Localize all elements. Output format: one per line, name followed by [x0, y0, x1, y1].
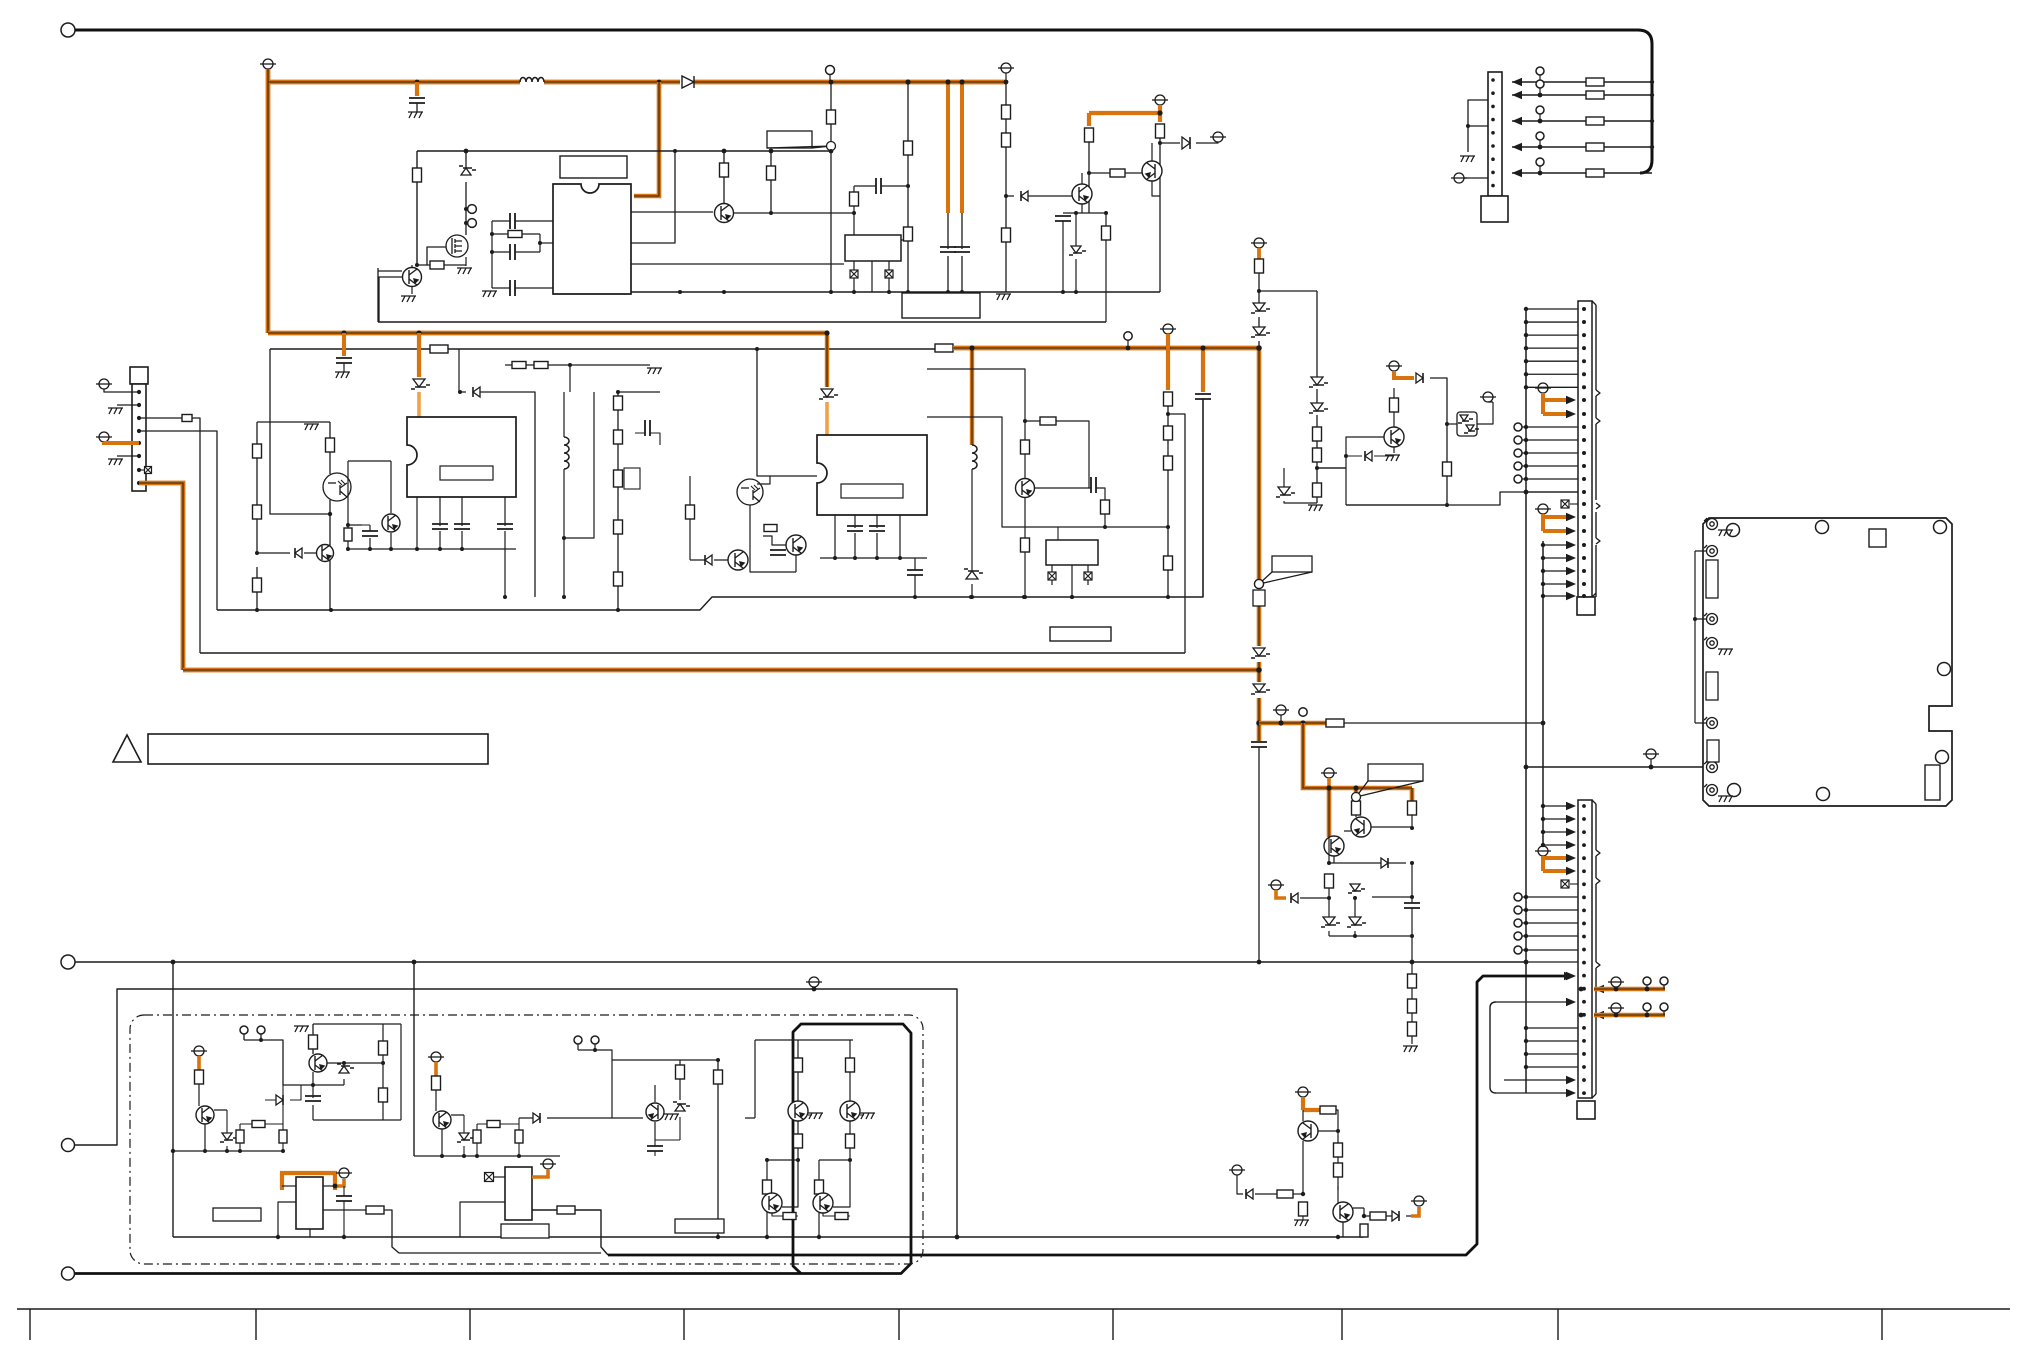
junction: [1582, 594, 1586, 598]
junction: [1336, 1129, 1340, 1133]
mounting hole: [1938, 663, 1951, 676]
capacitor (X): [885, 270, 893, 278]
capacitor: [1055, 216, 1071, 221]
wire to shield: [1526, 766, 1703, 768]
resistor: [487, 1121, 500, 1128]
arrow: [1566, 1089, 1576, 1097]
wire: [770, 151, 772, 213]
junction: [562, 595, 566, 599]
transistor Q16: [433, 1111, 451, 1129]
power terminal: [96, 379, 112, 389]
wire: [971, 469, 973, 597]
stem: [1615, 1013, 1617, 1015]
junction: [765, 1235, 769, 1239]
CN2 row wire: [1526, 386, 1578, 388]
junction: [616, 608, 620, 612]
ground: [664, 1114, 679, 1120]
wire: [578, 1044, 612, 1060]
junction: [887, 290, 891, 294]
resistor: [850, 192, 859, 206]
flag target circle: [1255, 580, 1264, 589]
power terminal: [1152, 95, 1168, 105]
junction: [817, 1235, 821, 1239]
wire: [1411, 962, 1413, 1044]
wire: [265, 1085, 301, 1100]
capacitor: [454, 524, 470, 529]
wire: [655, 1117, 680, 1140]
diode: [1021, 191, 1028, 201]
wire: [1212, 142, 1218, 143]
wire: [617, 392, 619, 610]
IC U3 label: [440, 466, 493, 480]
junction: [1257, 960, 1262, 965]
wire: [532, 1210, 608, 1255]
wire: [808, 1114, 864, 1116]
label box: [675, 1219, 724, 1233]
diode: [1365, 451, 1372, 461]
capacitor: [645, 420, 650, 436]
arrow: [1566, 972, 1576, 980]
junction: [412, 960, 417, 965]
capacitor: [847, 526, 863, 531]
power terminal: [806, 977, 822, 987]
ground: [335, 372, 350, 378]
wire: [463, 1115, 465, 1156]
open terminal: [1514, 449, 1522, 457]
wire: [1346, 455, 1394, 457]
orange bus: [953, 346, 1259, 351]
junction: [1582, 909, 1586, 913]
open terminal: [1536, 106, 1544, 114]
arrow: [1566, 867, 1576, 875]
transistor Q17: [646, 1103, 664, 1121]
orange CN3 side feed: [1594, 1013, 1665, 1017]
junction: [1524, 333, 1528, 337]
junction: [459, 1236, 461, 1238]
resistor: [1277, 1190, 1293, 1198]
arrow: [1566, 592, 1576, 600]
wire: [1062, 221, 1064, 292]
wire: [717, 1060, 719, 1237]
mounting hole: [1727, 524, 1740, 537]
label box: [1050, 627, 1111, 641]
diode: [1182, 137, 1190, 149]
open terminal: [240, 1026, 248, 1034]
wire: [927, 417, 1168, 527]
transistor Q21: [813, 1193, 833, 1213]
orange stub: [1303, 1097, 1320, 1110]
junction: [1074, 211, 1078, 215]
junction: [905, 79, 910, 84]
junction: [1158, 141, 1162, 145]
wire: [139, 431, 217, 610]
wire: [1057, 527, 1059, 540]
capacitor: [869, 526, 885, 531]
junction: [755, 347, 759, 351]
junction: [1541, 556, 1545, 560]
wire: [492, 220, 553, 222]
junction: [440, 1154, 444, 1158]
zener: [1253, 303, 1265, 311]
wire: [1329, 888, 1355, 898]
junction: [1410, 861, 1414, 865]
junction: [1445, 503, 1449, 507]
junction: [1524, 359, 1528, 363]
open terminal: [1514, 906, 1522, 914]
transistor Q18: [788, 1101, 808, 1121]
wire: [505, 364, 650, 366]
wire: [618, 391, 660, 393]
callout flag: [767, 131, 836, 151]
junction: [1582, 556, 1586, 560]
wire: [348, 524, 370, 526]
junction: [171, 1149, 175, 1153]
wire: [1081, 173, 1083, 213]
junction: [1157, 110, 1162, 115]
junction: [1582, 882, 1586, 886]
open terminal: [468, 205, 477, 214]
junction: [853, 556, 857, 560]
junction: [593, 1048, 597, 1052]
zener: [1311, 403, 1323, 411]
junction: [1582, 974, 1586, 978]
junction: [906, 184, 910, 188]
inductor: [972, 445, 977, 469]
diode: [705, 555, 712, 565]
orange bus (heater): [139, 483, 183, 670]
stem: [1646, 1011, 1648, 1015]
wire: [1293, 1193, 1303, 1195]
junction: [1582, 948, 1586, 952]
transistor Q4: [1142, 161, 1162, 181]
junction: [1022, 595, 1026, 599]
junction: [1524, 320, 1528, 324]
capacitor: [1404, 903, 1420, 908]
resistor: [1002, 228, 1011, 242]
wire: [1695, 551, 1706, 723]
resistor: [904, 141, 913, 155]
wire: [239, 1124, 241, 1151]
CN2 bracket: [1595, 424, 1597, 500]
junction: [503, 595, 507, 599]
capacitor: [510, 280, 515, 296]
ground: [1718, 796, 1733, 802]
resistor: [432, 1076, 441, 1090]
power terminal (B+ in): [260, 59, 276, 69]
resistor: [1002, 133, 1011, 147]
junction: [137, 454, 141, 458]
CN2 bracket chevron: [1596, 538, 1600, 544]
open terminal: [574, 1036, 582, 1044]
ground: [408, 112, 423, 118]
open terminal: [1536, 158, 1544, 166]
junction: [1582, 1091, 1586, 1095]
open terminal: [1536, 67, 1544, 75]
open terminal: [591, 1036, 599, 1044]
wire: [1035, 488, 1105, 500]
label box: [213, 1208, 261, 1221]
junction: [829, 149, 834, 154]
junction: [1524, 1039, 1528, 1043]
zener: [1278, 487, 1290, 495]
junction: [1582, 987, 1586, 991]
open terminal: [1660, 1003, 1668, 1011]
zener: [1253, 327, 1265, 335]
photocoupler diode pair: [1457, 412, 1477, 436]
ground: [304, 424, 319, 430]
resistor: [534, 362, 548, 369]
resistor: [614, 396, 623, 410]
orange bus (secondary B+): [268, 331, 827, 336]
junction: [1582, 1078, 1586, 1082]
ruler tick: [1557, 1309, 1559, 1340]
zener: [1323, 917, 1335, 925]
junction: [1582, 1000, 1586, 1004]
junction: [616, 390, 620, 394]
power terminal: [191, 1046, 207, 1056]
junction: [1300, 720, 1305, 725]
wire: [283, 1063, 344, 1085]
orange stub: [197, 1056, 201, 1070]
power terminal: [1210, 132, 1226, 142]
junction: [1582, 817, 1586, 821]
resistor: [1586, 169, 1604, 177]
resistor: [1360, 1224, 1368, 1237]
junction: [1582, 372, 1586, 376]
wire: [782, 1160, 850, 1207]
feedback wire: [631, 151, 675, 243]
junction: [906, 290, 910, 294]
wire: [1005, 82, 1007, 292]
IC pin wires: [417, 497, 505, 597]
junction: [1524, 948, 1528, 952]
capacitor: [954, 247, 970, 252]
zener diode: [1253, 648, 1265, 656]
junction: [1582, 804, 1586, 808]
junction: [1582, 307, 1586, 311]
diode: [1381, 858, 1388, 868]
junction: [1524, 425, 1528, 429]
resistor: [1299, 1202, 1308, 1216]
CN2 bracket: [1595, 512, 1597, 538]
diode: [533, 1113, 540, 1123]
wire: [1468, 125, 1488, 127]
resistor: [1586, 117, 1604, 125]
junction: [342, 1235, 346, 1239]
junction: [898, 556, 902, 560]
ground: [1308, 505, 1323, 511]
junction: [1524, 372, 1528, 376]
wire: [172, 962, 174, 1237]
arrow: [1594, 1011, 1604, 1019]
junction: [955, 1235, 960, 1240]
orange bus: [183, 668, 1259, 673]
junction: [328, 512, 332, 516]
mounting hole: [1934, 521, 1947, 534]
wire: [854, 185, 908, 187]
capacitor: [770, 550, 786, 555]
arrow: [1566, 802, 1576, 810]
junction: [716, 1058, 720, 1062]
wire: [416, 103, 418, 112]
junction: [137, 481, 141, 485]
power terminal: [428, 1052, 444, 1062]
resistor: [1313, 448, 1322, 462]
junction: [255, 608, 259, 612]
wire: [329, 422, 331, 610]
CN3 row wire: [1504, 1079, 1566, 1081]
arrow into CN1: [1512, 143, 1522, 151]
resistor: [1390, 398, 1399, 412]
wire: [767, 1159, 850, 1161]
orange rail: [1257, 348, 1262, 741]
wire: [1346, 504, 1447, 506]
junction: [1582, 502, 1586, 506]
junction: [1353, 896, 1357, 900]
bus wire: [1525, 962, 1527, 1093]
junction: [875, 556, 879, 560]
resistor: [1255, 259, 1264, 273]
CN2 row wire: [1526, 308, 1578, 310]
junction: [1582, 843, 1586, 847]
capacitor (X): [145, 467, 152, 474]
junction: [1491, 78, 1495, 82]
junction: [829, 149, 833, 153]
wire: [1393, 447, 1395, 453]
eyelet terminal: [1704, 518, 1718, 530]
junction: [1541, 569, 1545, 573]
junction: [1524, 451, 1528, 455]
resistor: [835, 1213, 848, 1220]
mounting hole: [1817, 788, 1830, 801]
terminal stem: [1539, 140, 1541, 147]
junction: [1582, 935, 1586, 939]
CN2 row wire: [1522, 426, 1578, 428]
zener diode: [1350, 884, 1360, 891]
zener diode: [461, 168, 471, 175]
junction: [1491, 157, 1495, 161]
junction: [1582, 582, 1586, 586]
resistor: [1408, 1022, 1417, 1036]
capacitor (X): [1561, 500, 1569, 508]
junction: [1650, 93, 1654, 97]
resistor: [413, 168, 422, 182]
resistor: [182, 415, 192, 422]
wire: [1411, 897, 1413, 962]
photocoupler PC2: [737, 479, 763, 505]
label box: [501, 1224, 549, 1238]
junction: [475, 1154, 479, 1158]
resistor: [1408, 801, 1417, 815]
CN3 row wire: [1543, 818, 1566, 820]
eyelet terminal: [1704, 637, 1718, 649]
junction: [137, 468, 141, 472]
stem: [813, 987, 815, 989]
junction: [137, 390, 141, 394]
ground: [401, 296, 416, 302]
junction: [913, 595, 917, 599]
junction: [1256, 720, 1262, 726]
jumper corner: [1490, 1002, 1496, 1008]
MOSFET Q2: [446, 235, 468, 257]
junction: [1582, 490, 1586, 494]
junction: [1524, 307, 1528, 311]
CN2 row wire: [1522, 439, 1578, 441]
junction: [1301, 1192, 1305, 1196]
transistor Q12: [1324, 836, 1344, 856]
arrow: [1566, 527, 1576, 535]
CN2 row wire: [1543, 570, 1566, 572]
zener diode: [1071, 246, 1081, 253]
junction: [1524, 490, 1529, 495]
wire: [1430, 378, 1447, 505]
wire: [679, 1060, 681, 1100]
resistor: [515, 1130, 523, 1143]
junction: [1326, 785, 1331, 790]
junction: [1614, 1013, 1619, 1018]
resistor: [512, 362, 526, 369]
jumper wire: [1490, 1008, 1496, 1093]
resistor: [827, 110, 836, 124]
wire: [492, 252, 553, 288]
wire: [477, 1123, 519, 1125]
capacitor: [907, 570, 923, 575]
power terminal: [1535, 383, 1551, 393]
junction: [1541, 804, 1545, 808]
junction: [1582, 1039, 1586, 1043]
junction: [1165, 345, 1170, 350]
long signal rail: [75, 961, 1526, 963]
wire: [1303, 1110, 1338, 1194]
wire: [139, 469, 144, 471]
wire: [343, 363, 345, 372]
IC pin wires: [835, 515, 900, 558]
plate slot: [1706, 560, 1718, 598]
resistor: [1085, 128, 1094, 142]
power terminal: [1273, 705, 1289, 715]
wire: [689, 476, 691, 560]
zener: [1349, 917, 1361, 925]
wire: [205, 1110, 227, 1151]
junction: [1582, 438, 1586, 442]
wire: [901, 239, 908, 241]
ground: [1385, 455, 1400, 461]
connector CN2: [1578, 301, 1592, 597]
junction: [1316, 413, 1318, 415]
junction: [517, 1154, 521, 1158]
capacitor: [497, 524, 513, 529]
wire: [411, 265, 413, 294]
rail: [217, 399, 1203, 610]
wire: [1104, 514, 1106, 527]
CN3 row wire: [1526, 1040, 1578, 1042]
resistor: [1408, 999, 1417, 1013]
wire: [1372, 896, 1412, 898]
orange feed to IC1: [634, 82, 659, 196]
power terminal: [1643, 749, 1659, 759]
ground: [457, 268, 472, 274]
junction: [1582, 412, 1586, 416]
resistor: [1325, 874, 1334, 888]
note box: [148, 734, 488, 764]
inductor: [564, 437, 569, 469]
diode: [682, 76, 694, 88]
IC U2 (shunt regulator): [845, 235, 901, 261]
wire: [1334, 815, 1412, 863]
wire: [417, 247, 466, 265]
junction: [255, 551, 259, 555]
diode: [1392, 1211, 1399, 1221]
